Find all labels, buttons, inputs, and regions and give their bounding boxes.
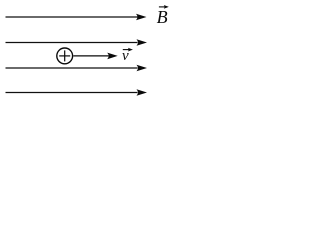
plus sign vertical <box>64 50 66 61</box>
arrowhead line 2 <box>137 39 148 46</box>
field line 4 <box>6 92 138 94</box>
field line 1 <box>6 16 138 18</box>
field line 2 <box>6 42 138 44</box>
arrowhead line 3 <box>137 65 148 72</box>
B accent arrow <box>159 6 166 8</box>
velocity arrowhead <box>107 53 118 60</box>
arrowhead line 4 <box>137 89 148 96</box>
arrowhead line 1 <box>136 14 147 21</box>
svg-text:v: v <box>122 48 129 64</box>
svg-text:B: B <box>157 7 168 27</box>
velocity arrow shaft <box>73 55 108 57</box>
v accent arrow <box>123 49 130 51</box>
charge circle <box>57 48 73 64</box>
field line 3 <box>6 67 138 69</box>
plus sign horizontal <box>59 55 70 57</box>
